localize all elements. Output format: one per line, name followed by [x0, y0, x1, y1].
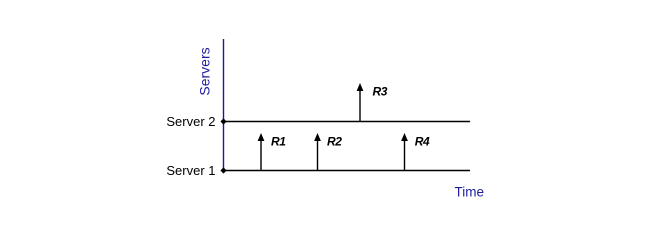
- svg-text:R1: R1: [271, 134, 286, 148]
- y-axis (Servers axis line): [223, 39, 225, 171]
- Server 2 line: [224, 121, 471, 123]
- svg-text:R2: R2: [327, 134, 342, 148]
- svg-text:Server 2: Server 2: [166, 114, 215, 129]
- arrow R2 head: [314, 133, 321, 141]
- svg-text:Server 1: Server 1: [166, 163, 215, 178]
- Server 1 line: [224, 170, 471, 172]
- svg-text:Servers: Servers: [197, 47, 213, 95]
- arrow R4 head: [401, 133, 408, 141]
- svg-text:Time: Time: [455, 185, 485, 200]
- arrow R4 shaft: [404, 140, 406, 171]
- svg-text:R3: R3: [373, 84, 388, 98]
- arrow R3 head: [357, 83, 364, 91]
- svg-text:R4: R4: [415, 134, 430, 148]
- Server 2 marker diamond: [220, 118, 226, 124]
- Server 1 marker diamond: [220, 167, 226, 173]
- arrow R1 head: [258, 133, 265, 141]
- arrow R1 shaft: [260, 140, 262, 171]
- arrow R3 shaft: [359, 90, 361, 122]
- arrow R2 shaft: [317, 140, 319, 171]
